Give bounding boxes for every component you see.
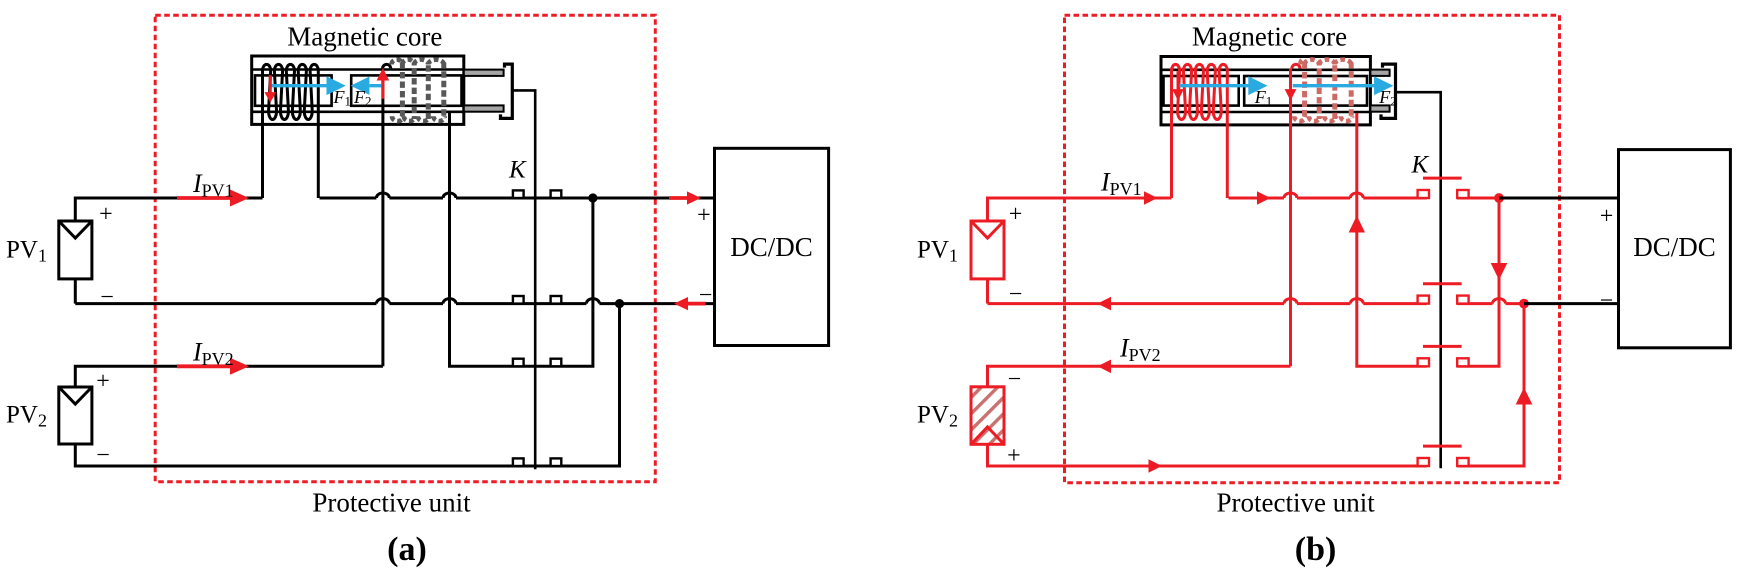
- force arrow F1 (b): [1179, 84, 1249, 87]
- sensing coil lead wire left (a): [381, 68, 384, 366]
- sensing coil current arrow up (a): [381, 80, 384, 99]
- current arrow IPV2 (a): [177, 364, 231, 368]
- return current arrow minus (a): [688, 302, 706, 306]
- wire row1 to switch and DC/DC (a): [320, 193, 715, 198]
- switch K open contact row4 (b): [1418, 458, 1429, 466]
- svg-text:Magnetic core: Magnetic core: [1192, 22, 1347, 52]
- switch K contact row2 (a): [513, 296, 524, 304]
- wire row4 PV2 positive (b): [988, 444, 1427, 466]
- svg-text:−: −: [699, 283, 713, 309]
- switch K contact row4 (a): [513, 458, 524, 466]
- switch K open contact row2 (b): [1418, 296, 1429, 304]
- svg-text:K: K: [1411, 151, 1430, 178]
- current arrow row4 right (b): [1149, 459, 1163, 473]
- core left plunger window (b): [1164, 76, 1239, 106]
- core right plunger window (a): [351, 75, 461, 105]
- current arrow up into sensing coil (b): [1349, 216, 1365, 233]
- coil current arrow down (a): [269, 75, 272, 92]
- svg-text:+: +: [697, 203, 711, 229]
- operating coil of PV1 branch (a): [263, 64, 319, 198]
- svg-text:Magnetic core: Magnetic core: [287, 22, 442, 52]
- switch actuator link and bar K (a): [512, 90, 535, 469]
- switch K open contact row1 (b): [1418, 190, 1429, 198]
- armature bracket (a): [501, 64, 513, 118]
- current arrow row1 second (b): [1257, 191, 1271, 205]
- junction node row1 (a): [588, 193, 597, 202]
- fault current arrow down riser (b): [1491, 263, 1508, 280]
- DC/DC converter (b): [1619, 150, 1731, 348]
- core right plunger window (b): [1244, 76, 1367, 106]
- protective unit enclosure (a): [155, 15, 655, 481]
- wire row1 to switch (b): [1229, 193, 1427, 198]
- wire row1 PV1 positive (b): [988, 198, 1172, 221]
- core left plunger window (a): [255, 75, 332, 105]
- svg-text:−: −: [1600, 288, 1614, 314]
- wire row1 PV1 positive (a): [75, 198, 262, 221]
- switch K open contact row3 (b): [1418, 358, 1429, 366]
- wire node row2 to DC/DC (b): [1524, 302, 1619, 305]
- junction node row2 (b): [1519, 299, 1529, 309]
- svg-text:Protective unit: Protective unit: [312, 488, 471, 518]
- svg-text:Protective unit: Protective unit: [1216, 488, 1375, 518]
- sensing coil of PV2 branch, dashed (b): [1302, 63, 1307, 120]
- switch actuator link and bar K (b): [1396, 92, 1441, 468]
- sensing coil current arrow down (b): [1289, 71, 1292, 89]
- svg-text:−: −: [100, 284, 114, 310]
- wire row2 PV1 negative to DC/DC (a): [74, 279, 77, 304]
- wire node row1 to DC/DC (b): [1499, 197, 1619, 200]
- magnetic core outer shell (a): [252, 56, 464, 124]
- DC/DC converter (a): [715, 148, 829, 345]
- svg-text:DC/DC: DC/DC: [730, 232, 813, 262]
- force arrow F2 (a): [369, 84, 383, 87]
- sensing coil lead wire right with row3 (b): [1357, 113, 1427, 366]
- armature push rod bottom (b): [1370, 105, 1389, 111]
- svg-text:+: +: [1009, 202, 1023, 228]
- sensing coil lead wire right (a): [450, 113, 593, 366]
- armature push rod top (a): [464, 70, 504, 76]
- junction node row2 (a): [615, 299, 624, 308]
- armature bracket (b): [1381, 64, 1396, 118]
- riser row4 contact to node row2 (b): [1457, 304, 1524, 466]
- svg-text:(b): (b): [1295, 531, 1337, 568]
- core top rail (a): [252, 68, 464, 71]
- magnetic core outer shell (b): [1161, 57, 1370, 125]
- switch K contact row3 (a): [513, 359, 524, 367]
- svg-text:+: +: [1600, 204, 1614, 230]
- sensing coil lead wire left (b): [1289, 68, 1292, 366]
- switch K contact row1 (a): [513, 190, 524, 198]
- output current arrow plus (a): [669, 196, 688, 200]
- svg-text:−: −: [1008, 367, 1022, 393]
- riser row3 contact to node row1 (b): [1457, 198, 1499, 366]
- PV source PV2 (a): [59, 387, 92, 444]
- wire row2 PV1 negative (b): [986, 279, 989, 304]
- wire row3 PV2 negative (b): [988, 366, 1291, 387]
- armature push rod bottom (a): [464, 105, 504, 111]
- PV source PV1 (a): [59, 221, 92, 279]
- fault current arrow up riser (b): [1516, 388, 1533, 405]
- coil current arrow down (b): [1177, 71, 1180, 89]
- wire row3 PV2 positive (a): [75, 366, 383, 387]
- armature push rod top (b): [1370, 70, 1389, 76]
- current arrow row2 left (b): [1098, 297, 1112, 311]
- PV source PV1 (b): [971, 221, 1004, 279]
- current arrow IPV2 left (b): [1098, 360, 1112, 374]
- junction node row1 (b): [1494, 193, 1504, 203]
- svg-text:K: K: [508, 157, 527, 184]
- protective unit enclosure (b): [1065, 15, 1560, 482]
- core bottom rail (b): [1161, 111, 1370, 114]
- sensing coil first turn (b): [1292, 64, 1300, 68]
- force arrow F2 (b): [1293, 84, 1375, 87]
- core top rail (b): [1161, 69, 1370, 72]
- current arrow IPV1 (a): [177, 196, 231, 200]
- sensing coil of PV2 branch, dashed (a): [400, 63, 405, 120]
- svg-text:(a): (a): [387, 531, 427, 568]
- svg-text:DC/DC: DC/DC: [1633, 232, 1716, 262]
- faulted PV source PV2 reversed, hatched (b): [971, 387, 1004, 445]
- force arrow F1 (a): [270, 84, 328, 87]
- operating coil of PV1 branch energized (b): [1172, 64, 1228, 198]
- svg-text:+: +: [99, 202, 113, 228]
- svg-text:+: +: [96, 369, 110, 395]
- sensing coil first turn (a): [383, 64, 391, 68]
- wire row4 PV2 negative with riser (a): [75, 304, 619, 466]
- current arrow IPV1 first (b): [1144, 191, 1158, 205]
- wire row1 stub to node (b): [1457, 197, 1499, 200]
- wire row2 stub to node (b): [1457, 299, 1524, 304]
- core bottom rail (a): [252, 111, 464, 114]
